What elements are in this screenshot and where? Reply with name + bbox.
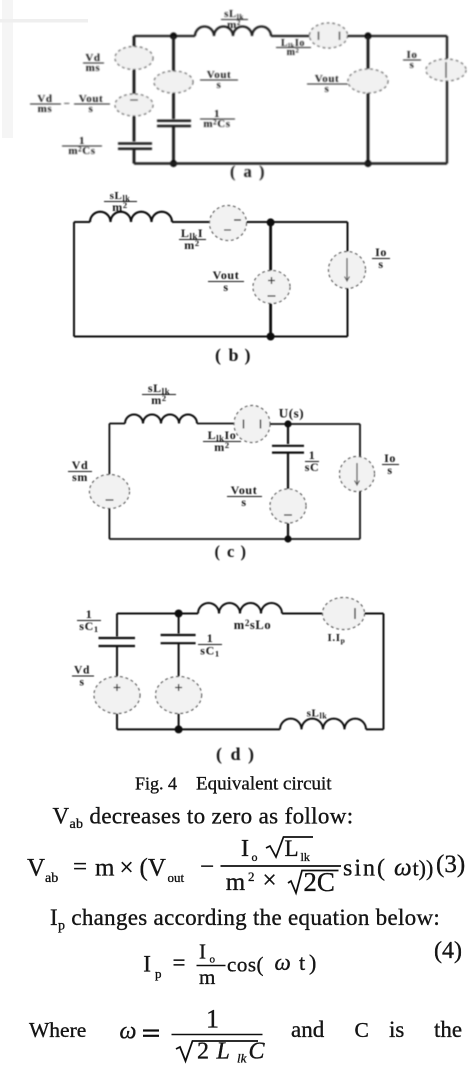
svg-text:L: L [285, 836, 299, 861]
label Io/s (b) [372, 245, 390, 271]
svg-text:o: o [210, 954, 216, 966]
node junction (a) branch3 bottom [364, 160, 371, 167]
wire: (a) right branch lower [446, 81, 448, 164]
wire: (a) branch2 lower [172, 127, 175, 164]
svg-text:s: s [410, 59, 415, 71]
wire: (a) left branch bottom stub [133, 150, 136, 164]
inductor sLlk (d) bottom [280, 719, 366, 730]
inductor sLlk/m^2 (a) [195, 27, 271, 37]
svg-text:m2: m2 [287, 47, 300, 58]
wire: (b) mid branch upper [269, 222, 272, 271]
equation 4: I_p = Io/m cos(w t) [143, 938, 462, 989]
svg-text:−: − [64, 98, 71, 110]
label 1/m^2Cs (a) left [62, 135, 102, 157]
svg-text:ω: ω [120, 1019, 137, 1045]
svg-text:I: I [143, 952, 151, 977]
svg-text:s: s [217, 79, 222, 91]
inductor sLlk/m^2 (b) [90, 212, 172, 222]
label 1/sC1 (d) left [77, 607, 101, 634]
wire: (b) right side upper [347, 222, 349, 252]
svg-text:ω: ω [275, 950, 291, 975]
source Vout/s (c) circle [270, 489, 306, 523]
wire: (b) top rail right segment [247, 221, 348, 223]
wire: (b) left side [73, 222, 75, 337]
wire: (a) left branch below circle 2 [133, 116, 136, 142]
wire: (a) branch3 upper [367, 36, 370, 70]
source LlkI/m^2 (b) series circle [210, 206, 247, 241]
wire: (c) mid branch lower [287, 523, 289, 539]
equation 3 fraction denominator m^2 x sqrt(2C) [226, 867, 339, 897]
label Vd/s (d) [72, 665, 94, 689]
current source Io/s (b) circle [329, 252, 366, 289]
svg-text:s: s [325, 83, 330, 95]
wire: (d) bottom rail right segment [366, 728, 384, 730]
svg-text:sC1: sC1 [200, 644, 219, 659]
svg-text:×: × [120, 855, 134, 882]
wire: (d) left branch middle [116, 647, 118, 677]
svg-text:Ip changes according the equat: Ip changes according the equation below: [50, 905, 440, 934]
svg-text:I: I [199, 940, 206, 964]
svg-text:is: is [389, 1017, 404, 1042]
wire: (b) top rail left stub [74, 221, 90, 223]
svg-text:o: o [252, 850, 258, 864]
wire: (c) left side upper [108, 424, 110, 476]
svg-text:): ) [245, 345, 252, 366]
svg-text:s: s [241, 495, 246, 509]
wire: (d) branch2 upper [178, 614, 180, 634]
svg-text:Vab decreases to zero as follo: Vab decreases to zero as follow: [53, 804, 354, 833]
label Io/s (a) [403, 49, 421, 71]
wire: (a) left branch upper [133, 36, 136, 47]
svg-text:the: the [434, 1017, 462, 1042]
svg-text:sin(: sin( [343, 856, 387, 882]
svg-text:2: 2 [248, 869, 255, 884]
svg-text:2: 2 [197, 1039, 209, 1065]
wire: (d) bottom rail left segment [117, 728, 280, 730]
svg-text:a: a [244, 162, 253, 181]
svg-text:(: ( [230, 162, 236, 181]
svg-text:s: s [378, 257, 383, 271]
svg-text:m2: m2 [214, 440, 229, 454]
figure caption Fig. 4 Equivalent circuit [135, 774, 332, 795]
wire: (a) branch2 upper [172, 36, 175, 72]
scan artifact: faint top-left smudge [0, 19, 88, 23]
svg-text:2C: 2C [303, 867, 335, 897]
svg-text:(4): (4) [434, 938, 462, 964]
source Vd/ms - Vout/s (a) circle 2 [115, 94, 153, 116]
svg-text:): ) [241, 542, 247, 561]
caption (c) [215, 542, 247, 561]
svg-text:C: C [355, 1018, 369, 1042]
svg-text:Equivalent circuit: Equivalent circuit [196, 774, 332, 795]
wire: (b) top rail mid segment [172, 221, 210, 223]
svg-text:m: m [226, 869, 246, 896]
wire: (d) right side [383, 614, 385, 730]
wire: (d) top rail right segment [365, 613, 384, 615]
svg-text:t)): t)) [413, 856, 434, 881]
wire: (d) branch2 middle [178, 644, 180, 677]
sentence: Vab decreases to zero as follow [53, 804, 354, 833]
wire: (a) left branch between sources [133, 70, 136, 95]
source Vout/s (a) branch2 circle [154, 71, 193, 93]
label LlkIo/m^2 (a) [276, 38, 311, 58]
label Io/s (c) [382, 451, 399, 477]
wire: (a) branch2 middle [172, 93, 175, 119]
svg-text:(: ( [215, 542, 221, 561]
label Vd/ms - Vout/s (a) [30, 93, 110, 115]
source LlkIo/m^2 (c) series circle [234, 406, 270, 443]
wire: (c) top rail right segment [270, 423, 360, 425]
svg-text:cos(: cos( [227, 953, 264, 977]
label Vout/s (a) branch3 [307, 73, 348, 95]
svg-text:lk: lk [237, 1051, 247, 1066]
svg-text:s: s [387, 463, 392, 477]
sentence: Ip changes according the equation below [50, 905, 440, 934]
wire: (a) branch3 lower [367, 93, 370, 164]
label Vout/s (c) [227, 483, 262, 509]
label Vd/ms (a) [83, 52, 104, 74]
capacitor 1/m^2Cs (a) branch2 [157, 121, 191, 126]
svg-text:and: and [291, 1017, 325, 1042]
svg-text:(V: (V [140, 855, 166, 882]
equation: w = 1/sqrt(2 Llk C) [120, 1005, 266, 1066]
svg-text:m2Cs: m2Cs [203, 118, 230, 130]
wire: (c) mid branch upper [287, 424, 289, 444]
svg-text:(: ( [216, 744, 223, 765]
equation 3 right side sin(wt)) (3) [343, 851, 465, 882]
caption (a) [230, 162, 265, 181]
label I.Ip (d) [328, 632, 346, 645]
source Vd/ms (a) circle 1 [115, 47, 153, 70]
equation 3 fraction numerator Io sqrt(L_lk) [241, 836, 313, 864]
node U(s) junction dot (c) [284, 420, 291, 427]
capacitor 1/sC1 (d) left [99, 638, 136, 646]
svg-text:p: p [155, 966, 162, 981]
source Llk Io/m^2 (a) series circle [310, 23, 348, 48]
node junction (d) branch2 top [175, 610, 183, 618]
svg-text:m2: m2 [151, 393, 166, 407]
caption (b) [215, 345, 251, 366]
sentence: Where [29, 1018, 86, 1042]
svg-text:lk: lk [301, 850, 310, 864]
wire: (a) right branch upper [446, 36, 448, 59]
svg-text:L: L [216, 1039, 230, 1065]
svg-text:): ) [248, 744, 255, 765]
svg-text:−: − [200, 854, 214, 881]
wire: (d) top rail left segment [117, 613, 198, 615]
node junction (b) mid bottom [267, 333, 275, 341]
label Vout/s (b) [208, 268, 244, 294]
label LlkI/m^2 (b) [179, 226, 206, 252]
wire: (a) bottom rail [134, 162, 447, 165]
svg-text:s: s [223, 280, 228, 294]
source (d) branch2 circle [156, 677, 202, 714]
svg-text:Fig. 4: Fig. 4 [135, 774, 177, 794]
current source Io/s (c) circle [340, 457, 375, 492]
svg-text:ab: ab [45, 871, 58, 886]
wire: (d) branch2 lower [178, 714, 180, 730]
svg-text:m: m [199, 965, 215, 989]
label sLlk/m^2 (b) [104, 190, 137, 214]
equation 3 fraction bar [221, 865, 342, 867]
wire: circuit (a) top rail left segment [134, 35, 195, 37]
inductor sLlk/m^2 (c) [125, 415, 197, 424]
source Vd/s (d) left circle [94, 677, 140, 714]
wire: (c) mid branch middle [287, 454, 289, 490]
svg-text:(: ( [215, 345, 222, 366]
svg-text:s: s [79, 677, 84, 689]
label LlkIo/m^2 (c) [203, 428, 241, 454]
svg-text:m: m [95, 855, 115, 882]
node junction (a) branch3 top [364, 32, 371, 39]
svg-text:sLlk: sLlk [307, 708, 328, 721]
wire: (b) right side lower [347, 288, 349, 337]
source Vd/sm (c) circle [90, 475, 130, 509]
wire: (d) top rail mid segment [282, 613, 323, 615]
svg-text:×: × [263, 867, 277, 894]
label sLlk (d) [307, 708, 328, 721]
label 1/m^2Cs (a) branch2 [200, 108, 235, 130]
capacitor 1/m^2Cs (a) left branch [118, 144, 152, 149]
label U(s) [279, 406, 305, 421]
svg-text:ms: ms [86, 62, 101, 74]
label sLlk/m^2 (a) [221, 8, 248, 31]
svg-text:=: = [73, 854, 87, 881]
label Vout/s (a) branch2 [200, 69, 238, 91]
wire: (b) mid branch lower [269, 304, 272, 337]
equation 3 left side V_ab = m x (V_out - [27, 854, 214, 887]
svg-text:s: s [89, 103, 94, 115]
svg-text:m2Cs: m2Cs [68, 145, 95, 157]
wire: (c) right side lower [359, 491, 361, 539]
wire: (c) top rail mid segment [197, 423, 234, 425]
node junction (b) mid top [267, 218, 275, 226]
svg-text:(3): (3) [436, 851, 465, 878]
label Vd/sm (c) [68, 458, 92, 484]
svg-text:ω: ω [394, 855, 412, 882]
svg-text:c: c [227, 542, 235, 561]
wire: (c) right side upper [359, 424, 361, 457]
source Vout/s (a) branch3 circle [348, 69, 388, 93]
svg-text:d: d [231, 744, 242, 764]
svg-text:): ) [309, 950, 316, 975]
wire: (b) bottom rail [74, 336, 348, 338]
svg-text:ms: ms [38, 103, 53, 115]
wire: (c) left side lower [108, 509, 110, 540]
node junction (c) mid bottom [284, 535, 291, 542]
capacitor 1/sC1 (d) branch2 [161, 635, 196, 643]
wire: (d) left branch lower [116, 714, 118, 730]
inductor m^2 sLo (d) [198, 603, 282, 614]
wire: (d) left branch upper [116, 614, 118, 637]
wire: (a) top rail right segment [347, 35, 447, 37]
svg-text:m2: m2 [184, 238, 199, 252]
svg-text:I: I [241, 836, 249, 862]
svg-text:m2: m2 [227, 19, 241, 31]
svg-text:1: 1 [206, 1005, 219, 1034]
sentence: and C is the [291, 1017, 462, 1042]
svg-text:t: t [299, 950, 305, 975]
svg-text:U(s): U(s) [279, 406, 305, 421]
scan artifact: faint left edge strip [2, 0, 13, 138]
svg-text:Vd: Vd [74, 665, 90, 677]
label 1/sC (c) [305, 448, 320, 474]
label m^2 sLo (d) [234, 618, 271, 632]
current source I.Ip (d) circle [323, 598, 365, 630]
source Vout/s (b) circle [253, 271, 290, 304]
svg-text:I.Ip: I.Ip [328, 632, 346, 645]
svg-text:sC1: sC1 [79, 619, 98, 634]
svg-text:=: = [173, 950, 186, 975]
svg-text:sC: sC [305, 460, 320, 474]
svg-text:out: out [168, 870, 185, 885]
svg-text:m2sLo: m2sLo [234, 618, 271, 632]
wire: (c) top rail left stub [109, 423, 125, 425]
svg-text:sm: sm [72, 470, 88, 484]
capacitor 1/sC (c) [272, 446, 304, 453]
caption (d) [216, 744, 255, 765]
current source Io/s (a) right circle [426, 59, 466, 81]
wire: (a) top rail mid segment [271, 35, 310, 37]
label sLlk/m^2 (c) [142, 381, 176, 407]
svg-text:b: b [229, 345, 240, 365]
svg-text:Where: Where [29, 1018, 86, 1042]
wire: (c) bottom rail [109, 538, 360, 540]
label 1/sC1 (d) branch2 [198, 631, 222, 659]
svg-text:): ) [259, 162, 265, 181]
svg-text:V: V [27, 855, 45, 882]
node junction (a) branch2 top [170, 32, 177, 39]
node junction (a) branch2 bottom [170, 160, 177, 167]
svg-text:C: C [249, 1039, 266, 1065]
node junction (d) branch2 bottom [175, 725, 183, 733]
